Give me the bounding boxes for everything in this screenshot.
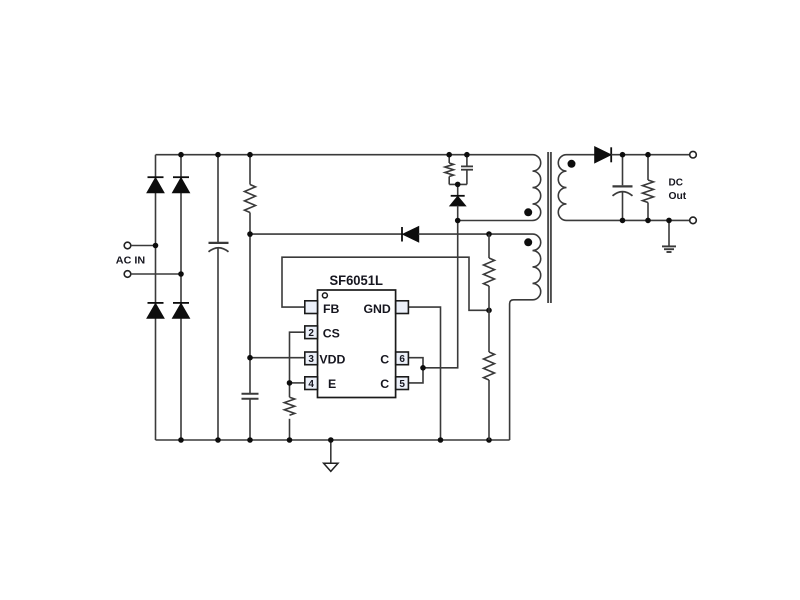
pin box 4 bbox=[305, 377, 318, 390]
wire AC bottom to bridge bbox=[131, 273, 181, 275]
earth ground output bbox=[662, 220, 676, 252]
svg-text:4: 4 bbox=[308, 379, 314, 390]
pin box 5 bbox=[396, 377, 409, 390]
diode D3 bridge lower-left bbox=[148, 303, 164, 318]
wire VDD node to aux diode bbox=[250, 233, 403, 235]
wire top rail bbox=[156, 154, 533, 156]
wire clamp diode to primary node bbox=[457, 206, 459, 221]
diode D1 bridge upper-left bbox=[148, 177, 164, 192]
svg-text:Out: Out bbox=[669, 191, 687, 202]
svg-text:2: 2 bbox=[308, 328, 314, 339]
svg-text:CS: CS bbox=[323, 326, 340, 340]
transformer secondary winding bbox=[558, 155, 566, 221]
aux phase dot bbox=[524, 238, 532, 246]
wire left bridge column 1 bbox=[155, 155, 157, 440]
wire AC top to bridge bbox=[131, 245, 156, 247]
terminal DC out minus bbox=[690, 217, 697, 224]
resistor R1 startup bbox=[245, 155, 256, 394]
svg-text:SF6051L: SF6051L bbox=[330, 273, 383, 288]
svg-text:6: 6 bbox=[399, 354, 405, 365]
svg-text:GND: GND bbox=[363, 302, 390, 316]
wire collector to primary bbox=[423, 221, 458, 368]
resistor R3 aux divider top bbox=[484, 234, 495, 310]
svg-text:VDD: VDD bbox=[319, 352, 345, 366]
wire output positive bbox=[611, 154, 690, 156]
wire secondary bottom bbox=[567, 219, 690, 221]
transformer aux winding bbox=[533, 234, 541, 300]
wire CS to E bbox=[290, 332, 305, 383]
pin box 2 bbox=[305, 326, 318, 339]
secondary phase dot bbox=[568, 160, 576, 168]
terminal AC top bbox=[124, 242, 131, 249]
resistor R2 snubber bbox=[445, 155, 454, 185]
svg-text:FB: FB bbox=[323, 302, 340, 316]
wire snubber bottom join bbox=[449, 183, 467, 185]
svg-text:AC IN: AC IN bbox=[116, 256, 145, 267]
svg-text:C: C bbox=[380, 352, 389, 366]
capacitor C4 snubber bbox=[461, 155, 473, 185]
terminal AC bottom bbox=[124, 271, 131, 278]
signal ground arrow bbox=[324, 440, 338, 471]
wire primary bottom bbox=[458, 220, 533, 222]
resistor R5 load bbox=[643, 155, 654, 221]
resistor R4 aux divider bottom bbox=[484, 310, 495, 440]
wire collector pins 6 and 5 join bbox=[408, 358, 423, 383]
pin box FB bbox=[305, 301, 318, 314]
diode D7 output rectifier bbox=[595, 147, 611, 162]
wire E pin bbox=[290, 382, 305, 384]
diode D4 bridge lower-right bbox=[173, 303, 189, 318]
svg-text:E: E bbox=[328, 377, 336, 391]
wire secondary top bbox=[567, 154, 596, 156]
wire VDD pin bbox=[250, 357, 305, 359]
svg-text:3: 3 bbox=[308, 354, 314, 365]
transformer core bbox=[548, 152, 551, 303]
capacitor C2 VDD bbox=[242, 394, 259, 440]
wire bottom ground rail bbox=[156, 439, 510, 441]
terminal DC out plus bbox=[690, 151, 697, 158]
diode D2 bridge upper-right bbox=[173, 177, 189, 192]
svg-text:5: 5 bbox=[399, 379, 405, 390]
wire GND pin to ground rail bbox=[408, 307, 440, 440]
IC U1 body bbox=[318, 290, 396, 398]
diode D5 aux rectifier bbox=[402, 227, 418, 242]
primary phase dot bbox=[524, 208, 532, 216]
wire aux diode to aux winding bbox=[418, 233, 532, 235]
IC pin1 index circle bbox=[322, 293, 327, 298]
svg-text:C: C bbox=[380, 377, 389, 391]
pin box 3 bbox=[305, 352, 318, 365]
diode D6 clamp bbox=[451, 196, 466, 206]
pin box 6 bbox=[396, 352, 409, 365]
wire FB loop bbox=[282, 257, 489, 310]
wire aux winding bottom bbox=[510, 300, 533, 440]
capacitor C1 bulk bbox=[209, 155, 229, 440]
wire snubber to diode bbox=[457, 184, 459, 196]
svg-text:DC: DC bbox=[669, 177, 683, 188]
transformer primary winding bbox=[533, 155, 541, 221]
pin box GND bbox=[396, 301, 409, 314]
capacitor C3 output bbox=[613, 155, 633, 221]
resistor R6 sense bbox=[284, 383, 294, 440]
wire bridge column 2 bbox=[180, 155, 182, 440]
